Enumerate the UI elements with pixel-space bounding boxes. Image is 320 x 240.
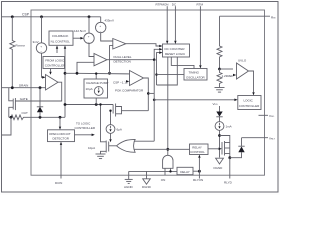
resistor R4 UVLO divider lower <box>217 69 222 88</box>
wire foldback bottom arrow stub <box>56 49 58 53</box>
box FOLDBACK NL CONTROL <box>49 31 73 45</box>
wire CSP rail <box>2 16 101 18</box>
wire A4 output to GATE <box>15 82 61 101</box>
label 1.23REF <box>222 74 237 78</box>
svg-text:FROM LOGIC: FROM LOGIC <box>45 59 65 63</box>
node POK link branch <box>147 92 150 95</box>
voltage source V1 3mV <box>33 17 47 54</box>
node status net to logic branch <box>153 99 156 102</box>
wire UVLO output to logic controller <box>249 71 254 92</box>
wire Q2 to POK net <box>122 110 149 112</box>
svg-text:DRAIN: DRAIN <box>19 83 28 87</box>
wire charge pump top tick <box>95 74 97 79</box>
svg-text:+: + <box>40 44 42 48</box>
svg-text:CHARGE PUMP: CHARGE PUMP <box>86 81 108 85</box>
box FROM LOGIC CONTROLLER <box>43 57 66 69</box>
wire A2 - input from OUT sense <box>65 62 94 73</box>
svg-text:142.5mV: 142.5mV <box>74 29 86 33</box>
pin VRLY right edge <box>242 137 276 141</box>
wire timing feedback to DC counter <box>157 53 160 85</box>
node OUT open-circuit branch <box>59 116 62 119</box>
node charge pump bus junctions <box>95 103 98 106</box>
ground AGND divider <box>215 88 225 93</box>
svg-text:10μA: 10μA <box>86 87 93 91</box>
transistor Q3 relay driver MOSFET <box>222 141 230 156</box>
svg-text:TO LOGIC: TO LOGIC <box>76 122 91 126</box>
node DRAIN-clamp junction <box>39 86 42 89</box>
wire relay control to gate arrow <box>208 148 219 150</box>
wire A1 - input from OUT sense <box>110 46 113 74</box>
svg-text:DGND: DGND <box>214 166 224 170</box>
wire DC counter to AND gate net <box>167 57 169 155</box>
resistor RSENSE <box>10 17 26 88</box>
wire OR output to Q4 gate <box>109 145 117 147</box>
wire 1mA to relay driver <box>219 130 221 157</box>
svg-text:CONTROL: CONTROL <box>190 150 205 154</box>
svg-text:DCIN: DCIN <box>55 181 62 185</box>
op-amp U1 UVLO <box>220 59 249 80</box>
voltage source V3 435mV <box>96 17 115 33</box>
svg-text:POK COMPARATOR: POK COMPARATOR <box>115 88 144 92</box>
svg-text:DETECTOR: DETECTOR <box>53 137 70 141</box>
wire open-circuit detector top arrow <box>59 117 61 126</box>
transistor Q1 external pass MOSFET <box>9 88 16 118</box>
svg-text:CONTROLLER: CONTROLLER <box>45 64 66 68</box>
node OUT sense branch <box>64 72 67 75</box>
wire OUT stub to border <box>2 117 12 135</box>
svg-text:3mV: 3mV <box>33 40 39 44</box>
node CSP junction at 142.5mV source <box>88 15 91 18</box>
svg-text:−: − <box>100 29 102 33</box>
wire A2 output to DC counter <box>107 49 159 59</box>
pin AGND bottom <box>124 171 134 189</box>
gate G2 OR <box>117 139 136 152</box>
wire DRAIN rail <box>2 87 46 89</box>
node relay drain output <box>228 156 231 159</box>
wire status to logic controller <box>154 99 234 101</box>
wire 142.5mV to A2 + input <box>89 44 94 57</box>
wire POK output net <box>144 78 149 111</box>
node OUT left junction <box>10 116 13 119</box>
svg-text:6μA: 6μA <box>117 128 122 132</box>
wire OUT sense up to foldback <box>64 49 66 118</box>
svg-text:ON: ON <box>161 178 166 182</box>
wire OR inputs <box>134 140 154 142</box>
svg-text:CSP: CSP <box>22 12 30 16</box>
svg-text:+: + <box>88 35 90 39</box>
pin ON <box>161 178 166 182</box>
svg-text:RESET LOGIC: RESET LOGIC <box>165 52 186 56</box>
svg-text:+: + <box>99 24 101 28</box>
wire charge pump output bus <box>65 104 113 106</box>
svg-text:OUT: OUT <box>22 111 29 115</box>
wire from-logic arrow into amp A4 <box>50 69 52 72</box>
svg-text:NL CONTROL: NL CONTROL <box>51 40 71 44</box>
op-amp A3 POK comparator <box>130 71 144 86</box>
diode D3 flyback <box>230 138 245 158</box>
box OPEN-CIRCUIT DETECTOR <box>48 130 75 142</box>
wire DC counter feedback to timing input <box>157 57 178 85</box>
box TIMING OSCILLATOR <box>184 69 207 81</box>
wire 3mV to amp A4 + input <box>42 53 44 77</box>
pin VDD right edge <box>259 114 275 118</box>
box DELAY <box>177 167 193 174</box>
svg-text:TIMING: TIMING <box>189 71 200 75</box>
wire DCIN pin to open-circuit detector <box>60 145 62 179</box>
pin RLYD <box>224 158 233 185</box>
box RELAY CONTROL <box>190 144 209 155</box>
svg-text:RLYD: RLYD <box>224 181 233 185</box>
resistor R3 UVLO divider upper <box>217 16 222 69</box>
wire TO LOGIC CONTROLLER arrow <box>75 122 96 137</box>
wire OUT sense to POK + input <box>77 72 130 75</box>
wire foldback output arrow to 142.5mV <box>73 37 81 39</box>
ground DGND relay <box>214 158 224 170</box>
svg-text:DC COUNTER: DC COUNTER <box>165 47 186 51</box>
node 1mA drain branch <box>218 134 221 137</box>
transistor Q4 status MOSFET <box>88 103 109 154</box>
wire link POK to status net <box>148 92 154 94</box>
pin DGND bottom <box>142 171 152 189</box>
svg-text:−: − <box>40 50 42 54</box>
svg-text:DUAL LEVEL: DUAL LEVEL <box>114 55 132 59</box>
svg-text:DGND: DGND <box>142 185 152 189</box>
box LOGIC CONTROLLER <box>238 96 261 110</box>
node OUT clamp junction <box>39 116 42 119</box>
box DC COUNTER RESET LOGIC <box>163 44 190 57</box>
svg-text:CSP −1.15: CSP −1.15 <box>113 81 128 85</box>
svg-text:1.23REF: 1.23REF <box>222 74 234 78</box>
svg-text:OSCILLATOR: OSCILLATOR <box>186 75 206 79</box>
svg-text:CONTROLLER: CONTROLLER <box>239 104 260 108</box>
svg-text:1mA: 1mA <box>226 125 232 129</box>
wire OUT rail with resistor R2 <box>9 111 65 120</box>
pin DC <box>172 2 177 44</box>
wire status net vertical <box>153 60 155 142</box>
pin RTM <box>197 2 204 68</box>
svg-text:DELAY: DELAY <box>180 170 190 174</box>
node and-output to relay control <box>166 148 169 151</box>
border frame <box>2 2 279 193</box>
wire AND gate inputs <box>164 168 166 175</box>
box CHARGE PUMP <box>84 79 108 98</box>
svg-text:10μA: 10μA <box>88 146 95 150</box>
node A1 sense branch <box>108 72 111 75</box>
wire DELAY output node <box>193 170 199 172</box>
wire RLYON to relay control arrow <box>198 158 200 179</box>
svg-text:UVLO: UVLO <box>238 59 247 63</box>
gate G1 AND <box>163 155 173 168</box>
wire A1 output to DC counter <box>126 44 160 46</box>
IC boundary box <box>31 10 265 175</box>
node A2 sense branch <box>76 72 79 75</box>
voltage source V2 142.5mV <box>74 17 94 44</box>
svg-text:LOGIC: LOGIC <box>244 99 254 103</box>
svg-text:RTPMON: RTPMON <box>156 2 169 6</box>
svg-text:CONTROLLER: CONTROLLER <box>75 126 96 130</box>
node DRAIN-Rsense junction <box>11 86 14 89</box>
diode D1 clamp zener <box>37 88 43 118</box>
current source I2 6uA <box>106 110 122 143</box>
power VDD internal rail <box>213 102 220 112</box>
op-amp A1 upper comparator <box>113 39 126 50</box>
pin RIN top right <box>220 16 276 20</box>
op-amp A4 gate driver <box>46 75 59 91</box>
wire DC counter to timing oscillator <box>171 57 194 69</box>
pin RTPMON <box>156 2 169 44</box>
svg-text:−: − <box>88 40 90 44</box>
svg-text:RTM: RTM <box>197 2 204 6</box>
svg-text:GATE: GATE <box>20 97 28 101</box>
current source I1 1mA <box>215 122 232 131</box>
svg-text:RLYON: RLYON <box>193 178 203 182</box>
node CSP junction at Rsense <box>11 15 14 18</box>
op-amp A2 lower comparator <box>94 54 107 66</box>
svg-text:FOLDBACK: FOLDBACK <box>52 34 68 38</box>
svg-text:435mV: 435mV <box>105 19 115 23</box>
svg-text:AGND: AGND <box>124 185 134 189</box>
ground AGND status <box>96 154 106 159</box>
diode D2 <box>216 112 222 122</box>
wire logic ground bus <box>129 170 177 172</box>
node UVLO divider tap <box>218 68 221 71</box>
svg-text:RELAY: RELAY <box>192 146 202 150</box>
node CSP junction at 3mV source <box>40 15 43 18</box>
transistor Q2 sense PMOS <box>113 104 121 117</box>
svg-text:OPEN-CIRCUIT: OPEN-CIRCUIT <box>49 132 71 136</box>
wire 435mV to A1 + input <box>101 33 113 41</box>
